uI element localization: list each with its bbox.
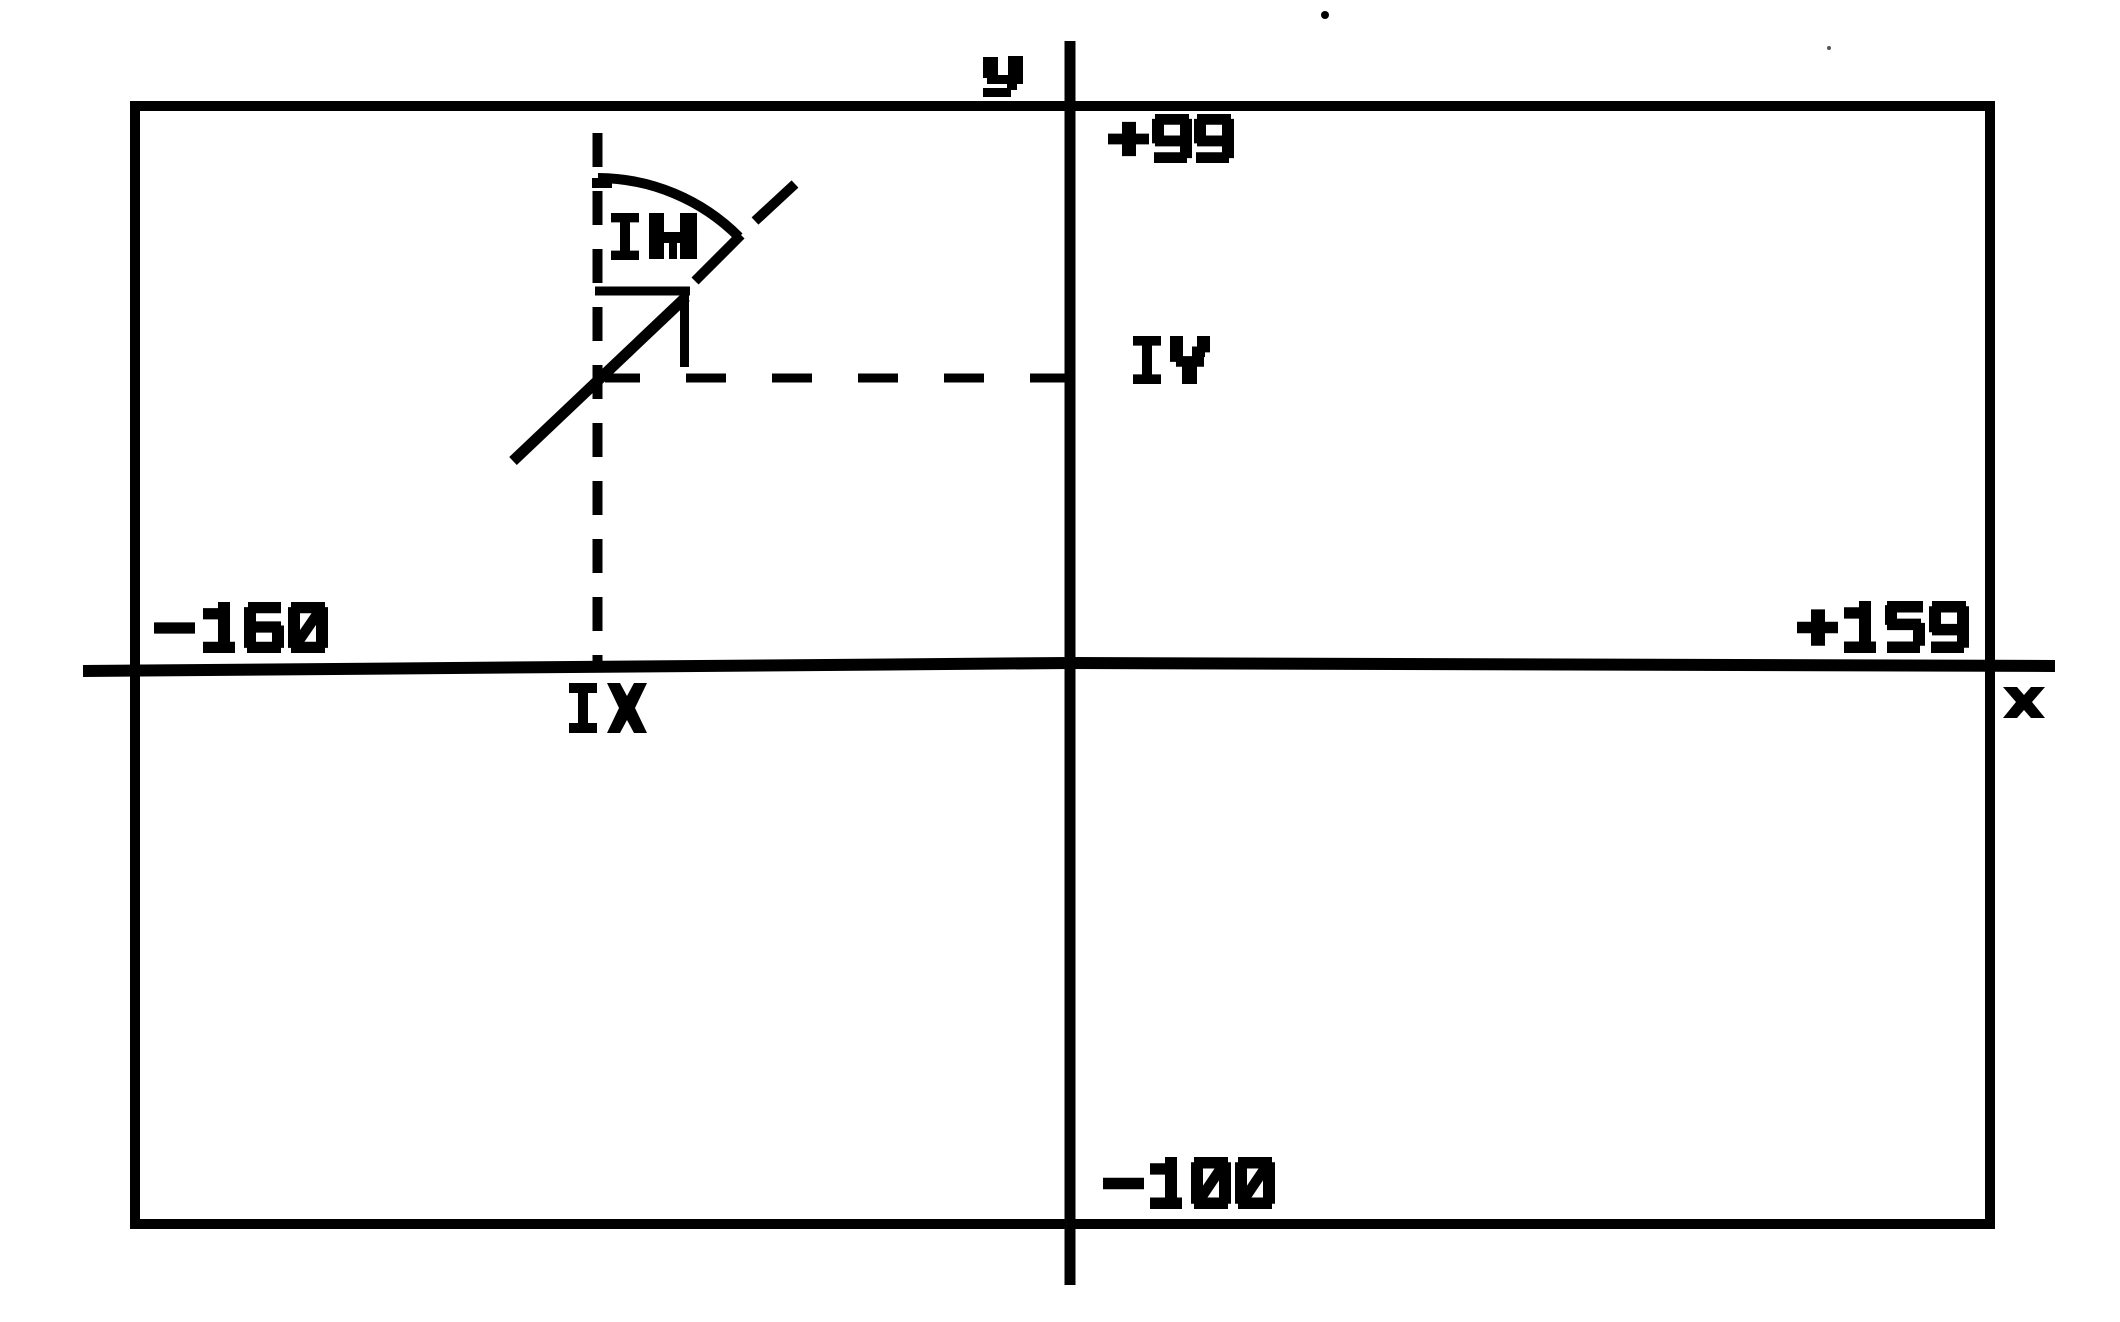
label IX bbox=[569, 683, 597, 733]
y axis bbox=[1065, 41, 1076, 1285]
label -100 bbox=[1103, 1178, 1144, 1189]
angle arc IW bbox=[592, 178, 612, 188]
x axis bbox=[83, 663, 2055, 671]
dashed vertical line through vector start (IX position) bbox=[593, 133, 603, 666]
horizontal projection from tip to dashed vertical bbox=[595, 287, 690, 296]
label IY bbox=[1133, 336, 1161, 384]
label +159 bbox=[1797, 609, 1838, 645]
label IW bbox=[611, 213, 639, 260]
dashed extension of vector bbox=[695, 235, 741, 281]
screen border rectangle bbox=[135, 106, 1990, 1224]
label y (y-axis name) bbox=[983, 56, 1023, 97]
label x (x-axis name) bbox=[2003, 687, 2045, 718]
dashed horizontal line through vector start (IY position) bbox=[605, 374, 1070, 383]
vertical projection from tip to dashed horizontal bbox=[680, 287, 689, 367]
label +99 bbox=[1108, 122, 1149, 156]
faint speck top right bbox=[1827, 46, 1831, 50]
speck top centre-right bbox=[1321, 11, 1329, 19]
label -160 bbox=[154, 622, 195, 633]
vector (solid diagonal line) bbox=[513, 297, 686, 461]
